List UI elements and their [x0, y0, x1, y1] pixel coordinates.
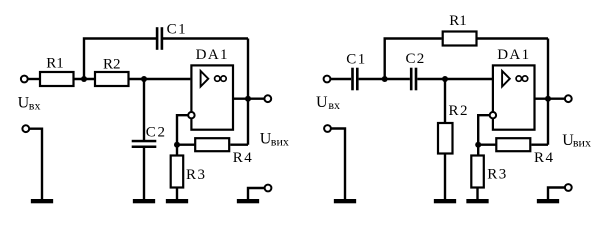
svg-text:DA1: DA1 — [497, 47, 530, 63]
svg-text:R1: R1 — [46, 56, 64, 72]
svg-text:U: U — [316, 94, 328, 111]
svg-text:вих: вих — [573, 136, 591, 150]
svg-text:вх: вх — [29, 99, 41, 113]
svg-text:R4: R4 — [534, 150, 555, 166]
svg-text:вих: вих — [271, 135, 289, 149]
svg-text:C1: C1 — [346, 52, 367, 68]
svg-text:вх: вх — [328, 98, 340, 112]
svg-text:C1: C1 — [167, 22, 188, 38]
svg-text:C2: C2 — [406, 51, 426, 67]
svg-text:R2: R2 — [103, 57, 121, 73]
svg-text:R1: R1 — [449, 13, 467, 29]
svg-text:R2: R2 — [449, 103, 470, 119]
svg-text:U: U — [18, 95, 30, 112]
svg-text:R4: R4 — [233, 150, 254, 166]
svg-text:R3: R3 — [487, 167, 508, 183]
svg-text:DA1: DA1 — [196, 47, 229, 63]
svg-text:C2: C2 — [146, 125, 167, 141]
svg-text:R3: R3 — [186, 167, 207, 183]
